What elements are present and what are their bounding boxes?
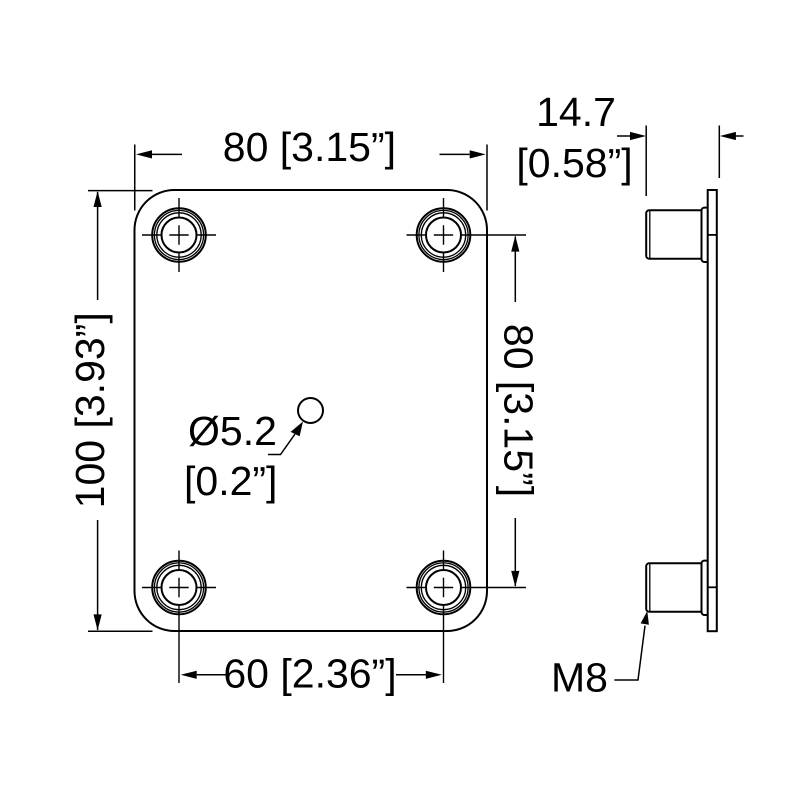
dimension 80 top: arrowheads <box>136 150 152 158</box>
dimension 60 bottom: dim lines <box>197 674 426 676</box>
svg-text:14.7: 14.7 <box>536 89 616 135</box>
boss bottom-right circles <box>417 561 471 615</box>
svg-text:M8: M8 <box>551 655 608 701</box>
centerlines bottom-left hole (bottom extends to dim) <box>142 551 216 684</box>
dimension 14.7: extension lines <box>617 126 744 197</box>
centerlines bottom-right hole (right+bottom extend to dims) <box>407 551 527 684</box>
side view: bottom stud chamfer line <box>649 563 651 611</box>
svg-text:100 [3.93”]: 100 [3.93”] <box>67 312 113 508</box>
svg-text:80 [3.15”]: 80 [3.15”] <box>496 324 542 497</box>
dimension 80 right: dim line segments <box>514 237 516 587</box>
dimension 100 left: extension lines <box>88 191 153 632</box>
side view: top stud chamfer line <box>649 210 651 258</box>
dimension 80 top: extension lines <box>135 145 487 211</box>
side view: bottom stud flange <box>702 561 708 615</box>
dimension 80 top: dim lines <box>152 153 182 155</box>
side view: bottom stud body <box>646 563 701 611</box>
svg-text:60 [2.36”]: 60 [2.36”] <box>223 651 396 697</box>
svg-text:[0.2”]: [0.2”] <box>184 458 277 504</box>
side view: top stud flange <box>702 208 708 262</box>
dimension 100 left: arrowheads <box>94 191 102 207</box>
centerlines top-left hole <box>142 198 216 272</box>
leader for center hole <box>268 434 295 454</box>
dimension 100 left: dim line segments <box>97 192 99 300</box>
dimension 14.7: dim line tails <box>617 135 631 137</box>
plate outline front view <box>135 190 488 631</box>
side view: plate bar <box>708 190 717 631</box>
boss bottom-left circles <box>152 561 206 615</box>
centerlines top-right hole (right one extends to dim) <box>407 198 527 272</box>
dimension 14.7: arrowheads <box>630 132 646 140</box>
boss top-left circles <box>152 208 206 262</box>
leader M8 <box>614 626 645 680</box>
svg-text:[0.58”]: [0.58”] <box>516 140 632 186</box>
center hole <box>298 398 323 423</box>
dimension 80 right: arrowheads <box>511 236 519 252</box>
side view: bar cross line bottom <box>708 586 717 588</box>
svg-text:Ø5.2: Ø5.2 <box>188 408 277 454</box>
dimension 60 bottom: arrowheads <box>181 671 197 679</box>
boss top-right circles <box>417 208 471 262</box>
side view: bar cross line top <box>708 234 717 236</box>
svg-text:80 [3.15”]: 80 [3.15”] <box>223 124 396 170</box>
side view: top stud body <box>646 210 701 258</box>
